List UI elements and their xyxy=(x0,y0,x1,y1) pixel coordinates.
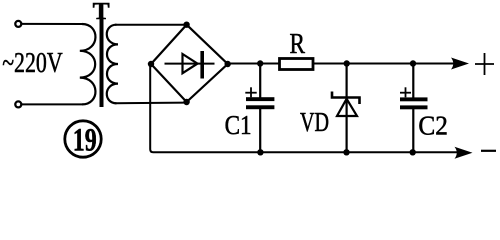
transformer T primary winding xyxy=(80,24,96,104)
arrowhead bottom rail xyxy=(455,147,473,159)
svg-text:T: T xyxy=(93,0,110,25)
node C2 top xyxy=(410,60,416,66)
node C1 top xyxy=(257,60,263,66)
wire DC- : left vertex down and along bottom rail xyxy=(150,64,457,152)
label plus output xyxy=(475,63,494,65)
diode lead inside bridge xyxy=(165,63,215,65)
node VD bottom xyxy=(343,149,349,155)
bridge rectifier diamond xyxy=(151,25,228,102)
svg-text:19: 19 xyxy=(73,122,97,158)
wire VD vertical xyxy=(346,64,348,153)
capacitor C2 plus sign xyxy=(400,92,411,94)
node C2 bottom xyxy=(410,149,416,155)
wire resistor to arrow xyxy=(314,63,456,65)
svg-text:C1: C1 xyxy=(225,110,252,140)
node C1 bottom xyxy=(257,149,263,155)
node right vertex xyxy=(225,61,231,67)
terminal J2 (AC input bottom) xyxy=(15,101,21,107)
zener VD triangle xyxy=(337,99,357,116)
wire secondary bottom to bridge bottom vertex (crosses DC- wire, no dot) xyxy=(115,102,187,105)
transformer T core xyxy=(100,18,104,107)
label minus output xyxy=(481,150,496,152)
capacitor C1 top plate xyxy=(246,97,274,101)
wire C2 top xyxy=(412,64,414,100)
transformer T secondary winding xyxy=(107,25,118,104)
capacitor C1 bottom plate xyxy=(246,105,274,109)
capacitor C1 plus sign xyxy=(245,92,256,94)
node top vertex xyxy=(183,22,189,28)
resistor R xyxy=(280,59,314,70)
capacitor C2 bottom plate xyxy=(400,105,428,109)
wire C2 bottom xyxy=(412,107,414,152)
wire secondary top to bridge top vertex xyxy=(115,24,187,26)
wire DC+ : right vertex to resistor xyxy=(228,63,279,65)
node left vertex xyxy=(148,61,154,67)
node bottom vertex xyxy=(183,99,189,105)
capacitor C2 top plate xyxy=(400,97,428,101)
wire C1 top xyxy=(259,64,261,100)
svg-text:R: R xyxy=(290,29,306,60)
figure number 19 circle xyxy=(65,121,101,157)
zener VD cathode bar with wings xyxy=(332,92,360,105)
terminal J1 (AC input top) xyxy=(15,21,21,27)
wire J1 to primary xyxy=(22,23,82,25)
svg-text:VD: VD xyxy=(300,107,329,137)
diode triangle inside bridge xyxy=(183,54,198,73)
svg-text:C2: C2 xyxy=(418,111,448,141)
svg-text:~220V: ~220V xyxy=(2,47,63,79)
wire J2 to primary xyxy=(22,103,82,105)
wire C1 bottom xyxy=(259,107,261,152)
diode cathode bar inside bridge xyxy=(200,51,204,79)
node VD top xyxy=(344,60,350,66)
arrowhead top rail xyxy=(451,58,469,70)
